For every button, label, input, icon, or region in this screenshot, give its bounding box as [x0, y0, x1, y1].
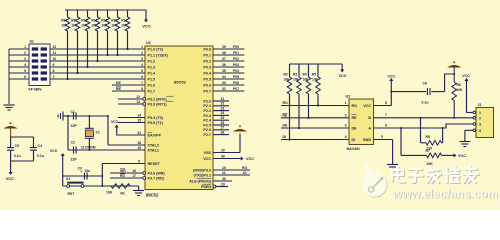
svg-text:DE: DE: [352, 126, 358, 130]
svg-text:10K: 10K: [71, 24, 78, 28]
svg-text:23: 23: [221, 106, 225, 110]
svg-text:P0.5: P0.5: [203, 77, 211, 81]
svg-text:ALE (PROG): ALE (PROG): [189, 179, 211, 183]
svg-text:39: 39: [222, 45, 226, 49]
svg-text:RESET: RESET: [148, 162, 161, 166]
svg-text:12: 12: [53, 45, 57, 49]
svg-text:16: 16: [132, 169, 136, 173]
svg-text:0.1u: 0.1u: [37, 154, 44, 158]
svg-text:P2.4: P2.4: [203, 119, 212, 123]
svg-text:1: 1: [141, 45, 143, 49]
svg-text:1: 1: [479, 111, 481, 115]
svg-text:R5: R5: [312, 73, 316, 77]
svg-text:R11: R11: [91, 19, 97, 23]
svg-text:3: 3: [141, 57, 143, 61]
svg-text:P00: P00: [233, 45, 239, 49]
svg-text:R6: R6: [457, 83, 461, 87]
svg-text:40: 40: [221, 154, 225, 158]
svg-text:P2.6: P2.6: [203, 128, 211, 132]
svg-text:RE: RE: [352, 116, 358, 120]
svg-text:R1: R1: [121, 192, 125, 196]
svg-text:P0.3: P0.3: [203, 65, 211, 69]
svg-text:10K: 10K: [91, 24, 98, 28]
svg-text:VCC: VCC: [111, 120, 119, 124]
svg-text:RO: RO: [352, 104, 358, 108]
svg-text:P2.3: P2.3: [203, 114, 211, 118]
svg-text:P2.1: P2.1: [203, 104, 211, 108]
svg-text:RE: RE: [283, 114, 289, 118]
svg-text:(RXD)P3.0: (RXD)P3.0: [193, 168, 211, 172]
svg-text:10K: 10K: [303, 78, 310, 82]
svg-text:10: 10: [53, 57, 57, 61]
svg-text:10K: 10K: [457, 88, 464, 92]
svg-text:Y1: Y1: [96, 130, 100, 134]
svg-text:DI: DI: [243, 171, 247, 175]
svg-text:37: 37: [222, 57, 226, 61]
svg-text:B: B: [368, 116, 371, 120]
svg-text:2: 2: [479, 116, 481, 120]
svg-text:4: 4: [24, 63, 26, 67]
svg-text:P1.2: P1.2: [148, 59, 156, 63]
svg-text:4: 4: [345, 135, 347, 139]
svg-text:RST: RST: [68, 192, 76, 196]
svg-text:11.0592M: 11.0592M: [81, 145, 96, 149]
svg-text:10K: 10K: [106, 191, 113, 195]
svg-text:R10: R10: [81, 19, 87, 23]
svg-text:89C52: 89C52: [146, 193, 159, 198]
svg-text:10K: 10K: [111, 24, 118, 28]
svg-text:VCC: VCC: [6, 176, 15, 181]
svg-text:89C52: 89C52: [174, 80, 187, 85]
svg-text:P03: P03: [233, 63, 239, 67]
svg-text:10K: 10K: [284, 78, 291, 82]
svg-text:10K: 10K: [312, 78, 319, 82]
svg-text:24: 24: [221, 111, 225, 115]
svg-text:P0.2: P0.2: [203, 59, 211, 63]
svg-text:VCC: VCC: [363, 104, 371, 108]
svg-text:7: 7: [385, 113, 387, 117]
svg-text:KF 08Pa: KF 08Pa: [29, 88, 42, 92]
svg-text:P1.3: P1.3: [148, 65, 156, 69]
svg-text:R13: R13: [111, 19, 117, 23]
svg-text:P1.0 (T2): P1.0 (T2): [148, 47, 164, 51]
svg-text:XTAL1: XTAL1: [148, 148, 159, 152]
svg-text:36: 36: [222, 63, 226, 67]
svg-text:P3.3 (INT1): P3.3 (INT1): [148, 102, 168, 106]
svg-text:27: 27: [221, 126, 225, 130]
svg-text:5: 5: [141, 69, 143, 73]
svg-text:P3.4 (T0): P3.4 (T0): [148, 116, 164, 120]
svg-text:P05: P05: [233, 75, 239, 79]
svg-text:P07: P07: [233, 87, 239, 91]
svg-text:P1.7: P1.7: [148, 89, 156, 93]
svg-text:25: 25: [221, 116, 225, 120]
svg-text:21: 21: [221, 97, 225, 101]
svg-text:35: 35: [222, 69, 226, 73]
svg-text:R8: R8: [426, 135, 430, 139]
svg-text:U2: U2: [346, 95, 351, 99]
svg-text:13: 13: [136, 100, 140, 104]
svg-text:P2.5: P2.5: [203, 123, 211, 127]
svg-text:34: 34: [222, 75, 226, 79]
svg-text:VCC: VCC: [246, 157, 254, 161]
svg-text:2: 2: [345, 114, 347, 118]
svg-text:28: 28: [221, 130, 225, 134]
svg-text:10K: 10K: [121, 24, 128, 28]
svg-text:WR: WR: [120, 169, 126, 173]
svg-text:2: 2: [141, 51, 143, 55]
svg-text:J1: J1: [478, 103, 482, 107]
svg-text:R3: R3: [293, 73, 297, 77]
svg-text:www.elecfans.com: www.elecfans.com: [392, 187, 498, 201]
svg-text:C2: C2: [71, 141, 76, 145]
svg-text:S1: S1: [66, 177, 70, 181]
svg-text:VCC: VCC: [203, 157, 211, 161]
svg-text:P0.6: P0.6: [203, 83, 211, 87]
svg-text:VCC: VCC: [462, 74, 470, 78]
svg-text:10K: 10K: [61, 24, 68, 28]
svg-text:8: 8: [385, 101, 387, 105]
svg-text:2: 2: [24, 51, 26, 55]
svg-text:R14: R14: [121, 19, 127, 23]
svg-text:15: 15: [137, 118, 141, 122]
svg-text:R4: R4: [303, 73, 307, 77]
svg-text:R2: R2: [284, 73, 288, 77]
svg-text:P1.6: P1.6: [148, 83, 156, 87]
svg-text:12: 12: [136, 95, 140, 99]
svg-text:0.1u: 0.1u: [422, 100, 429, 104]
svg-text:P3.2 (INT0): P3.2 (INT0): [148, 97, 168, 101]
svg-text:PSEN: PSEN: [201, 185, 211, 189]
svg-text:VCC: VCC: [142, 24, 151, 29]
svg-text:32: 32: [222, 87, 226, 91]
svg-text:P2.0: P2.0: [203, 99, 211, 103]
svg-text:C1: C1: [71, 110, 76, 114]
svg-text:R12: R12: [101, 19, 107, 23]
svg-text:C6: C6: [423, 81, 428, 85]
svg-text:VCC: VCC: [458, 154, 466, 158]
svg-text:P0.0: P0.0: [203, 47, 211, 51]
svg-text:MAX481: MAX481: [347, 147, 361, 151]
svg-text:P3.6 (WR): P3.6 (WR): [148, 171, 166, 175]
svg-text:U1: U1: [146, 41, 151, 45]
svg-text:26: 26: [221, 121, 225, 125]
svg-text:(TXD)P3.1: (TXD)P3.1: [194, 173, 211, 177]
svg-text:P04: P04: [233, 69, 239, 73]
svg-text:11: 11: [53, 51, 57, 55]
svg-text:10K: 10K: [427, 162, 434, 166]
svg-text:C5: C5: [15, 144, 19, 148]
svg-text:P0.1: P0.1: [203, 53, 211, 57]
svg-text:+: +: [80, 170, 82, 174]
svg-text:3: 3: [345, 124, 347, 128]
svg-text:VSS: VSS: [204, 151, 212, 155]
svg-text:RO: RO: [242, 166, 248, 170]
svg-text:P3.5 (T1): P3.5 (T1): [148, 121, 164, 125]
svg-text:5: 5: [381, 135, 383, 139]
svg-text:R9: R9: [71, 19, 75, 23]
svg-text:0.1u: 0.1u: [14, 154, 21, 158]
svg-text:4: 4: [141, 63, 143, 67]
svg-text:DE: DE: [116, 81, 122, 85]
svg-text:P1.5: P1.5: [148, 77, 156, 81]
svg-text:RO: RO: [283, 101, 289, 105]
svg-text:14: 14: [137, 113, 141, 117]
svg-text:P0.4: P0.4: [203, 71, 212, 75]
svg-text:22: 22: [221, 102, 225, 106]
svg-text:DI: DI: [352, 138, 356, 142]
svg-text:1: 1: [345, 101, 347, 105]
svg-text:RD: RD: [120, 174, 125, 178]
svg-text:P3.7 (RD): P3.7 (RD): [148, 176, 165, 180]
svg-text:P2.2: P2.2: [203, 109, 211, 113]
svg-text:10K: 10K: [101, 24, 108, 28]
svg-text:P06: P06: [233, 81, 239, 85]
svg-text:P01: P01: [233, 51, 239, 55]
svg-text:6: 6: [385, 123, 387, 127]
svg-text:P2.7: P2.7: [203, 133, 211, 137]
svg-text:VCC: VCC: [50, 149, 58, 153]
svg-text:RE: RE: [116, 87, 122, 91]
svg-text:10u: 10u: [85, 169, 91, 173]
svg-text:GND: GND: [363, 138, 372, 142]
svg-text:33: 33: [222, 81, 226, 85]
svg-text:XTAL2: XTAL2: [148, 143, 159, 147]
svg-text:DE: DE: [283, 124, 289, 128]
svg-text:10K: 10K: [293, 78, 300, 82]
svg-text:A: A: [368, 126, 371, 130]
svg-text:VCC: VCC: [338, 74, 346, 78]
svg-text:20: 20: [221, 148, 225, 152]
svg-text:6: 6: [141, 75, 143, 79]
svg-text:17: 17: [132, 174, 136, 178]
svg-text:7: 7: [53, 75, 55, 79]
svg-text:S1: S1: [30, 40, 34, 44]
svg-text:1: 1: [24, 45, 26, 49]
svg-text:VCC: VCC: [388, 75, 396, 79]
svg-text:10K: 10K: [81, 24, 88, 28]
svg-text:22P: 22P: [71, 124, 78, 128]
svg-text:18: 18: [137, 141, 141, 145]
svg-text:C4: C4: [38, 144, 42, 148]
svg-text:EA/VPP: EA/VPP: [148, 133, 162, 137]
svg-text:7: 7: [141, 81, 143, 85]
svg-text:30: 30: [222, 177, 226, 181]
svg-text:38: 38: [222, 51, 226, 55]
svg-text:31: 31: [137, 131, 141, 135]
svg-text:3: 3: [479, 123, 481, 127]
svg-text:4: 4: [479, 129, 481, 133]
svg-text:22P: 22P: [71, 158, 78, 162]
svg-text:P02: P02: [233, 57, 239, 61]
svg-text:P1.4: P1.4: [148, 71, 157, 75]
svg-text:19: 19: [137, 146, 141, 150]
svg-text:8: 8: [53, 69, 55, 73]
svg-text:8: 8: [141, 87, 143, 91]
svg-text:P0.7: P0.7: [203, 89, 211, 93]
svg-text:9: 9: [53, 63, 55, 67]
svg-text:6: 6: [24, 75, 26, 79]
svg-text:9: 9: [138, 159, 140, 163]
svg-text:10: 10: [222, 166, 226, 170]
svg-text:R8: R8: [61, 19, 65, 23]
svg-text:11: 11: [222, 171, 226, 175]
svg-text:DI: DI: [283, 135, 287, 139]
svg-text:3: 3: [24, 57, 26, 61]
svg-text:5: 5: [24, 69, 26, 73]
svg-text:P1.1 (T2EX): P1.1 (T2EX): [148, 53, 169, 57]
svg-text:R7: R7: [426, 149, 430, 153]
svg-text:29: 29: [221, 182, 225, 186]
